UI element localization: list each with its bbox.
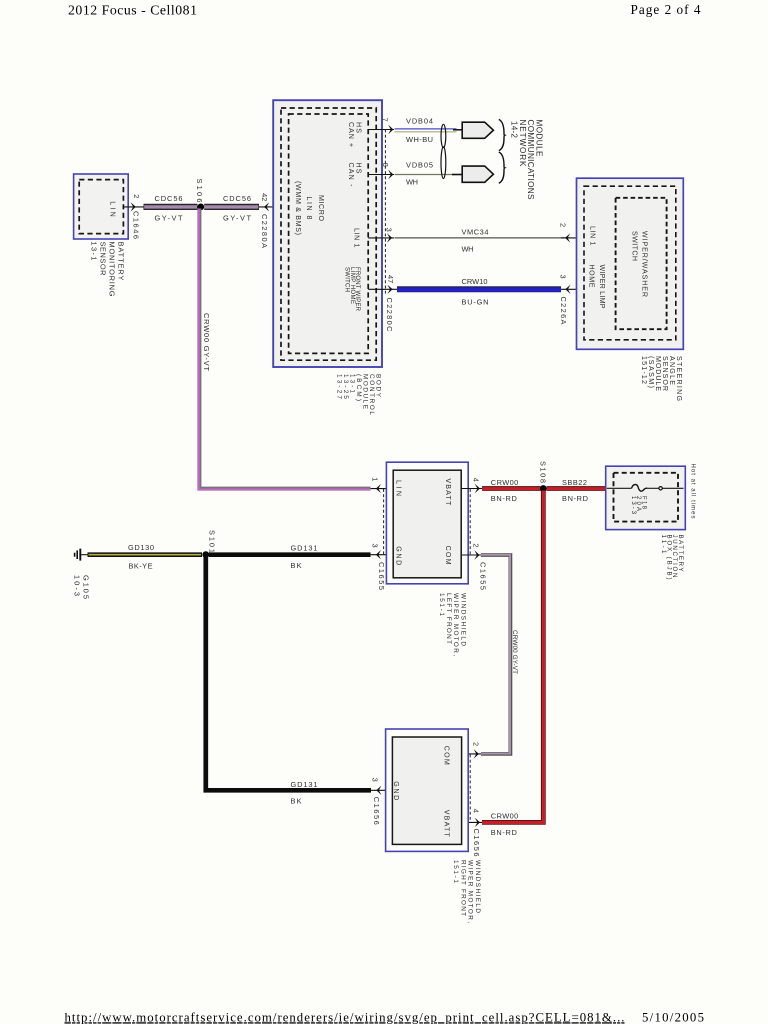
connector C2280C dashed line bbox=[384, 130, 386, 296]
left motor module label bbox=[438, 593, 467, 656]
BCM micro block label MICRO LIN 8 (WMM & BMS) bbox=[294, 181, 325, 235]
svg-text:SENSOR: SENSOR bbox=[99, 242, 108, 276]
page header page number bbox=[631, 2, 701, 17]
svg-text:GND: GND bbox=[394, 546, 402, 565]
footer date bbox=[642, 1010, 704, 1024]
SASM pin 2 arrow bbox=[559, 223, 584, 243]
BCM pin label LIN 1 bbox=[352, 228, 360, 248]
svg-text:3: 3 bbox=[370, 544, 379, 548]
svg-text:HOME: HOME bbox=[588, 265, 596, 288]
BCM pin 7 bbox=[368, 118, 394, 135]
svg-text:http://www.motorcraftservice.c: http://www.motorcraftservice.com/rendere… bbox=[65, 1010, 625, 1024]
connector arrow pin 42 C2280A bbox=[260, 193, 269, 248]
svg-text:BK: BK bbox=[291, 797, 302, 806]
wire GD131 BK upper bbox=[209, 544, 371, 570]
windshield wiper motor right front box bbox=[386, 729, 469, 851]
svg-text:LIN: LIN bbox=[108, 201, 116, 217]
svg-text:C1646: C1646 bbox=[132, 211, 141, 239]
battery monitoring sensor pin label LIN bbox=[108, 201, 116, 217]
svg-text:CDC56: CDC56 bbox=[223, 194, 251, 203]
windshield wiper motor left front box bbox=[386, 462, 468, 584]
left motor pin label COM bbox=[444, 546, 452, 565]
SASM pin 3 arrow C226A bbox=[559, 275, 584, 325]
svg-text:CRW00 GY-VT: CRW00 GY-VT bbox=[511, 630, 518, 674]
svg-text:WINDSHIELD: WINDSHIELD bbox=[474, 860, 481, 913]
network terminator pentagon 1 bbox=[462, 122, 493, 138]
wire CDC56 GY-VT left segment bbox=[144, 194, 198, 223]
left motor pin label GND bbox=[394, 546, 402, 565]
svg-text:VMC34: VMC34 bbox=[462, 228, 489, 237]
svg-text:GD130: GD130 bbox=[128, 543, 154, 552]
wire CRW00 BN-RD vertical S108 to right motor bbox=[482, 491, 543, 838]
svg-text:LIN 1: LIN 1 bbox=[352, 228, 360, 248]
wire CRW00 BN-RD left motor to S108 bbox=[482, 478, 541, 503]
wire CRW00 GY-VT from S106 to left wiper motor bbox=[199, 209, 371, 490]
svg-text:GY-VT: GY-VT bbox=[155, 213, 183, 222]
steering angle sensor module SASM box bbox=[577, 178, 684, 349]
connector C1656 dashed line right side bbox=[469, 755, 471, 823]
right motor pin 3 arrow C1656 bbox=[371, 778, 393, 825]
svg-text:BN-RD: BN-RD bbox=[491, 494, 517, 503]
network terminator pentagon 2 bbox=[462, 166, 493, 182]
svg-text:2: 2 bbox=[472, 543, 481, 547]
right motor pin label GND bbox=[392, 781, 400, 800]
footer URL bbox=[65, 1010, 625, 1024]
battery junction box BJB bbox=[606, 466, 686, 529]
left motor pin 4 arrow bbox=[461, 478, 482, 493]
right motor pin 2 arrow bbox=[462, 742, 481, 759]
brace 2 bbox=[499, 152, 505, 183]
svg-text:RIGHT FRONT: RIGHT FRONT bbox=[459, 860, 466, 916]
wire GD130 BK-YE bbox=[88, 543, 203, 571]
svg-text:COM: COM bbox=[444, 546, 452, 565]
connector C1655 dashed line left side bbox=[383, 489, 385, 555]
module communications network label bbox=[510, 120, 544, 201]
twisted pair symbol bbox=[441, 124, 446, 178]
svg-text:GD131: GD131 bbox=[291, 544, 318, 553]
svg-text:C1655: C1655 bbox=[377, 562, 386, 590]
svg-text:GY-VT: GY-VT bbox=[223, 213, 251, 222]
svg-text:14-2: 14-2 bbox=[510, 121, 519, 138]
SASM pin label WIPER LIMP HOME bbox=[588, 265, 606, 309]
svg-text:42: 42 bbox=[260, 193, 269, 201]
svg-text:2: 2 bbox=[132, 194, 141, 198]
wire SBB22 BN-RD S108 to BJB bbox=[547, 478, 607, 503]
svg-text:2: 2 bbox=[559, 223, 568, 227]
svg-text:CDC56: CDC56 bbox=[155, 194, 183, 203]
connector C1655 dashed line right side bbox=[469, 489, 471, 555]
svg-text:LIN 1: LIN 1 bbox=[588, 226, 596, 246]
svg-text:BU-GN: BU-GN bbox=[462, 297, 489, 306]
svg-text:LIN 8: LIN 8 bbox=[305, 197, 313, 220]
pin 2 battery monitoring sensor bbox=[123, 194, 144, 207]
svg-text:GND: GND bbox=[392, 781, 400, 800]
svg-text:SWITCH: SWITCH bbox=[344, 267, 350, 292]
BCM pin 42 stub bbox=[259, 206, 289, 208]
BCM pin label HS CAN+ bbox=[347, 122, 362, 147]
svg-text:2: 2 bbox=[472, 742, 481, 746]
svg-text:C2280A: C2280A bbox=[260, 214, 269, 248]
svg-text:4: 4 bbox=[472, 809, 481, 813]
brace 1 bbox=[499, 119, 505, 150]
BCM pin 8 bbox=[368, 163, 394, 179]
svg-text:WIPER LIMP: WIPER LIMP bbox=[598, 265, 606, 309]
svg-text:VDB04: VDB04 bbox=[406, 116, 433, 125]
splice S106 bbox=[195, 179, 204, 211]
svg-text:C226A: C226A bbox=[559, 297, 568, 325]
svg-text:CRW00 GY-VT: CRW00 GY-VT bbox=[202, 313, 211, 371]
svg-text:BN-RD: BN-RD bbox=[562, 494, 588, 503]
svg-text:CRW10: CRW10 bbox=[462, 277, 488, 286]
svg-text:BATTERY: BATTERY bbox=[116, 242, 125, 281]
SASM module label bbox=[640, 356, 683, 401]
wire VDB05 WH bbox=[395, 161, 463, 187]
BCM pin 3 bbox=[368, 228, 394, 243]
svg-text:7: 7 bbox=[380, 118, 389, 122]
BCM bottom label bbox=[335, 374, 381, 415]
svg-text:CRW00: CRW00 bbox=[491, 812, 519, 821]
wire CRW00 GY-VT COM jumper bbox=[481, 555, 518, 754]
svg-text:VBATT: VBATT bbox=[444, 478, 452, 506]
svg-text:CAN +: CAN + bbox=[347, 122, 355, 147]
BJB module label bbox=[660, 535, 684, 580]
svg-text:C1656: C1656 bbox=[472, 829, 481, 857]
right motor module label bbox=[452, 860, 481, 923]
svg-text:BN-RD: BN-RD bbox=[491, 828, 517, 837]
svg-text:(WMM & BMS): (WMM & BMS) bbox=[294, 181, 302, 235]
svg-text:MONITORING: MONITORING bbox=[107, 242, 116, 297]
page header title bbox=[68, 3, 197, 18]
svg-text:Hot at all times: Hot at all times bbox=[690, 464, 696, 519]
battery monitoring sensor box bbox=[74, 174, 129, 239]
svg-text:4: 4 bbox=[472, 478, 481, 482]
SASM pin label LIN 1 bbox=[588, 226, 596, 246]
connector C2280C label bbox=[385, 298, 394, 333]
left motor pin label VBATT bbox=[444, 478, 452, 506]
svg-text:SBB22: SBB22 bbox=[562, 478, 587, 487]
svg-text:1: 1 bbox=[370, 477, 379, 481]
svg-text:MICRO: MICRO bbox=[317, 195, 325, 221]
svg-text:BK-YE: BK-YE bbox=[129, 562, 153, 571]
ground G105 bbox=[73, 549, 91, 599]
svg-text:Page 2 of 4: Page 2 of 4 bbox=[631, 2, 701, 17]
svg-text:151-12: 151-12 bbox=[640, 356, 648, 384]
svg-text:GD131: GD131 bbox=[291, 780, 318, 789]
wire CRW10 BU-GN bbox=[397, 277, 561, 306]
right motor pin 4 arrow C1656 bbox=[462, 809, 482, 857]
svg-text:VDB05: VDB05 bbox=[406, 161, 433, 170]
svg-text:WH-BU: WH-BU bbox=[406, 135, 433, 144]
BCM pin label FRONT WIPER LIMP HOME SWITCH bbox=[344, 267, 360, 312]
left motor pin 2 arrow C1655 bbox=[461, 543, 487, 590]
wire GD131 BK vertical and lower run bbox=[206, 555, 371, 806]
svg-text:CAN -: CAN - bbox=[347, 163, 355, 188]
svg-text:WH: WH bbox=[406, 177, 418, 186]
right motor pin label VBATT bbox=[443, 810, 451, 838]
BCM pin 47 bbox=[368, 275, 397, 294]
svg-text:LEFT FRONT: LEFT FRONT bbox=[445, 593, 452, 644]
BCM pin label HS CAN- bbox=[347, 163, 362, 188]
svg-text:WINDSHIELD: WINDSHIELD bbox=[459, 593, 466, 646]
splice S108 bbox=[538, 461, 547, 492]
svg-text:LIN: LIN bbox=[394, 480, 402, 496]
left motor pin 3 arrow C1655 bbox=[370, 544, 393, 591]
right motor pin label COM bbox=[443, 746, 451, 765]
svg-text:SWITCH: SWITCH bbox=[630, 231, 638, 261]
svg-text:C2280C: C2280C bbox=[385, 298, 394, 333]
left motor pin label LIN bbox=[394, 480, 402, 496]
svg-text:47: 47 bbox=[386, 275, 395, 283]
body control module BCM box bbox=[273, 100, 382, 367]
svg-text:C1656: C1656 bbox=[372, 797, 381, 825]
left motor pin 1 arrow bbox=[370, 477, 393, 493]
SASM wiper/washer switch inner box bbox=[616, 198, 667, 329]
svg-text:CRW00: CRW00 bbox=[491, 478, 519, 487]
wire VMC34 WH bbox=[395, 228, 571, 254]
svg-text:COM: COM bbox=[443, 746, 451, 765]
wire VDB04 WH-BU bbox=[395, 116, 463, 143]
connector arrow C1646 bbox=[131, 202, 141, 239]
svg-text:C1655: C1655 bbox=[478, 562, 487, 590]
svg-text:BK: BK bbox=[291, 561, 302, 570]
svg-text:2012 Focus - Cell081: 2012 Focus - Cell081 bbox=[68, 3, 197, 18]
battery monitoring sensor module label bbox=[90, 242, 126, 297]
svg-text:WH: WH bbox=[462, 245, 474, 254]
svg-text:151-1: 151-1 bbox=[452, 860, 459, 883]
svg-text:3: 3 bbox=[371, 778, 380, 782]
splice S101 bbox=[202, 530, 216, 558]
svg-text:WIPER/WASHER: WIPER/WASHER bbox=[641, 231, 649, 297]
svg-text:151-1: 151-1 bbox=[438, 593, 445, 616]
svg-text:VBATT: VBATT bbox=[443, 810, 451, 838]
fuse F18 20A bbox=[607, 484, 684, 514]
wire CDC56 GY-VT right segment bbox=[204, 194, 259, 223]
svg-text:13-1: 13-1 bbox=[90, 242, 99, 261]
svg-text:3: 3 bbox=[559, 275, 568, 279]
hot at all times label bbox=[690, 464, 696, 519]
svg-text:5/10/2005: 5/10/2005 bbox=[642, 1010, 704, 1024]
